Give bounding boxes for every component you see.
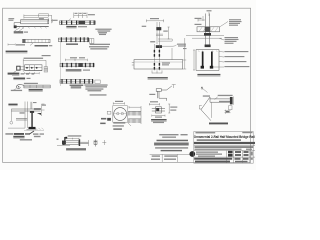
svg-text:Ornamental 2-Rail Half Mounted: Ornamental 2-Rail Half Mounted Bridge Ra… xyxy=(194,135,255,139)
